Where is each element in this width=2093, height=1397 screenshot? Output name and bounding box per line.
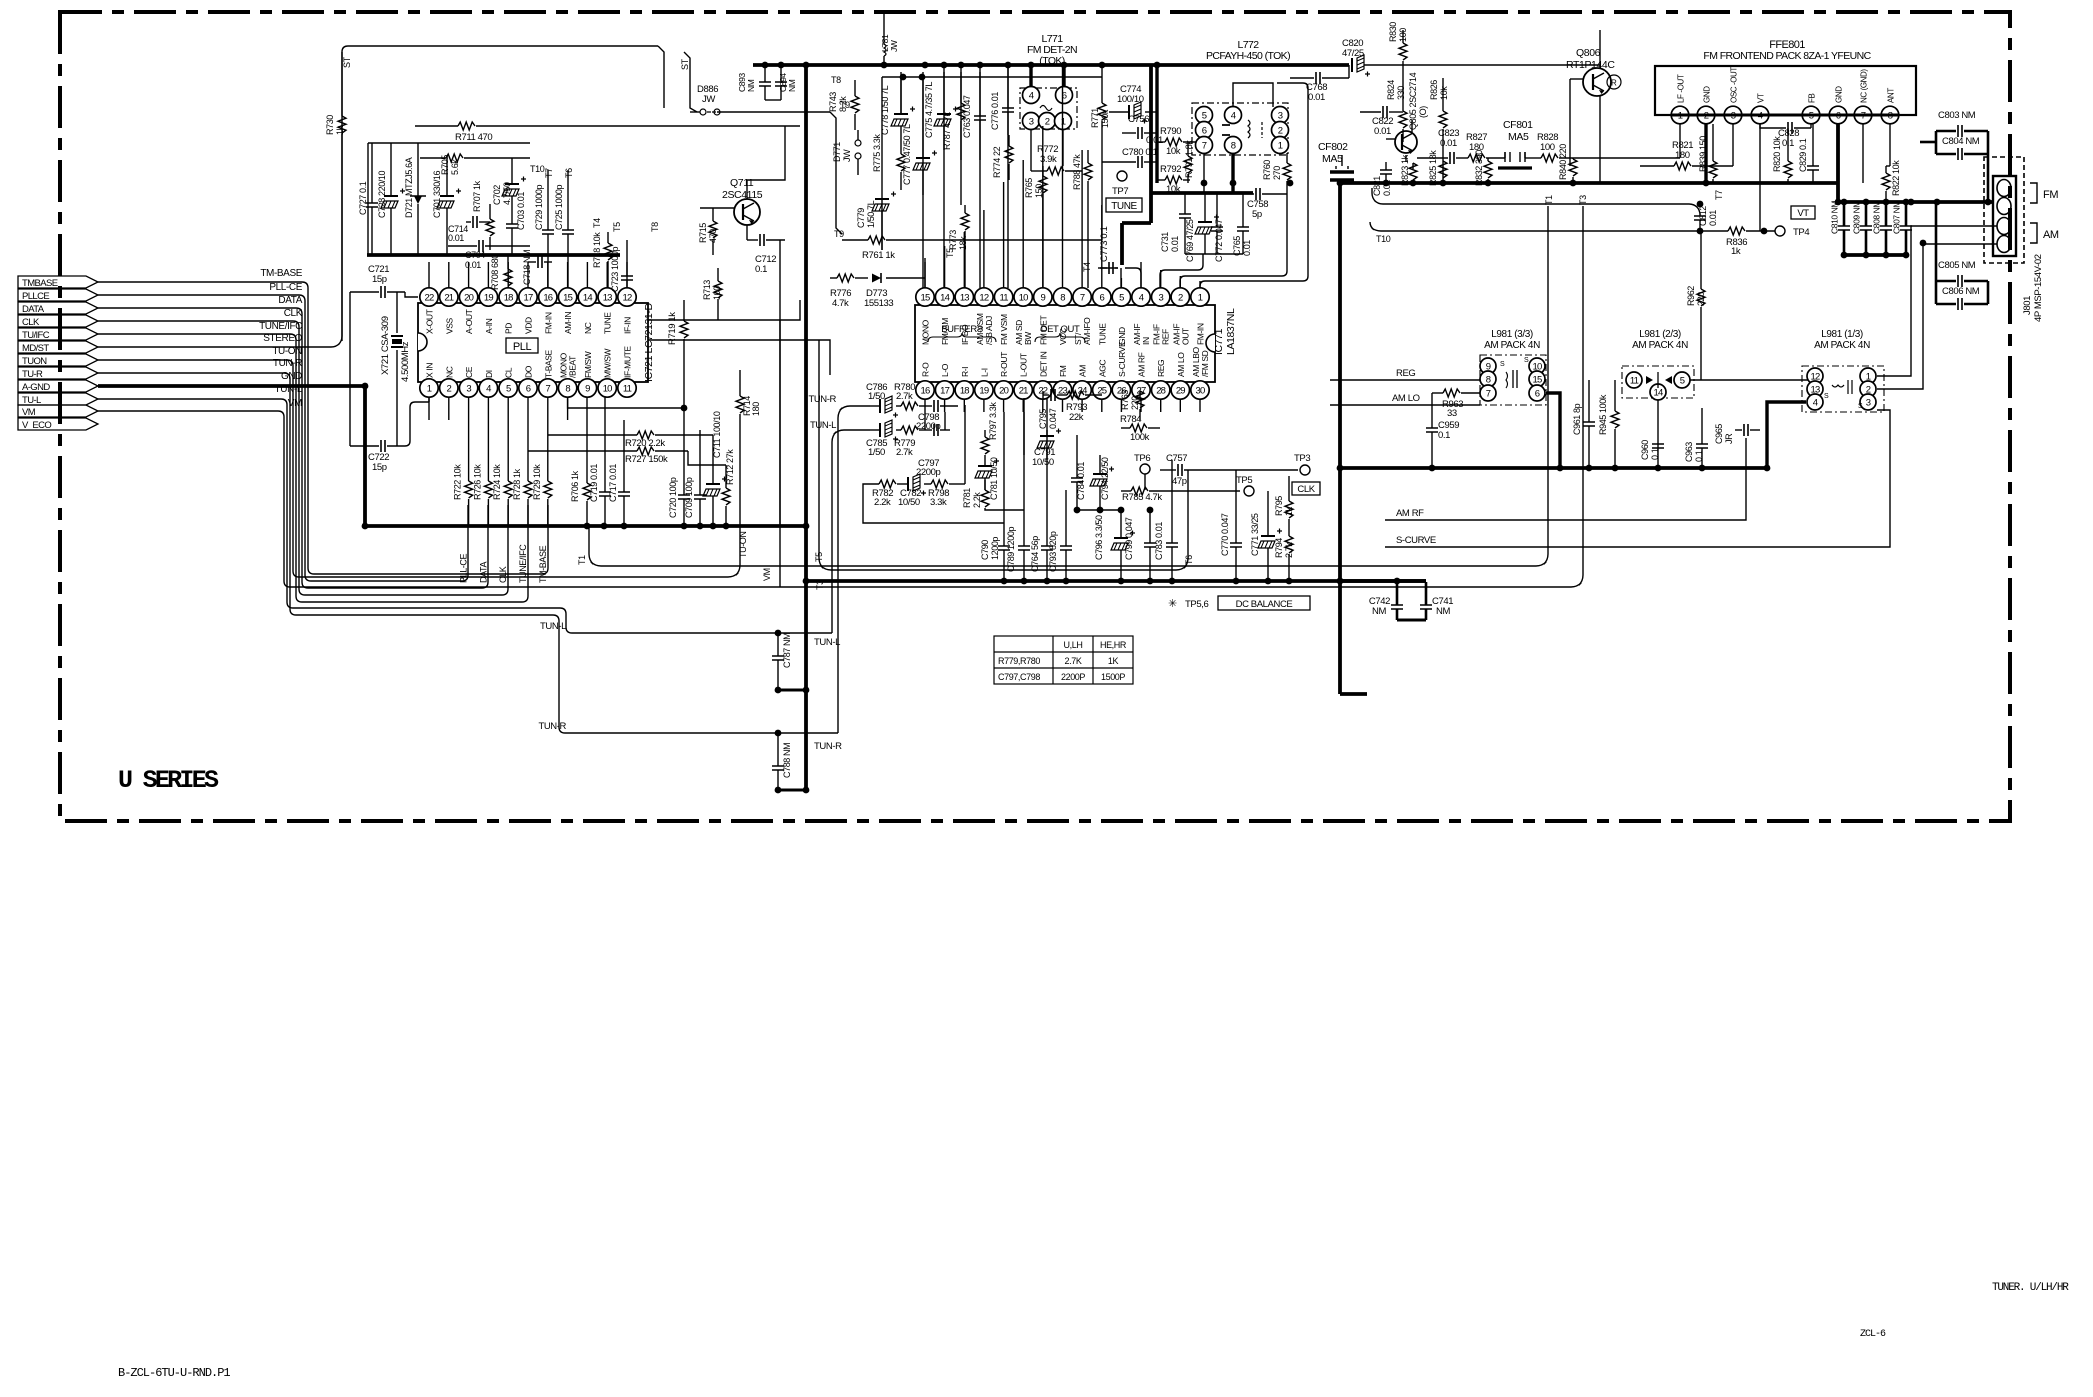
svg-text:C799 0.047: C799 0.047: [1124, 517, 1134, 560]
junction: [958, 62, 965, 69]
wire C805 box: [1935, 202, 1938, 304]
svg-text:GND: GND: [1835, 86, 1844, 103]
pin 18 IC721: [499, 288, 517, 306]
svg-text:C765: C765: [1232, 236, 1242, 256]
svg-text:C772 0.047: C772 0.047: [1214, 219, 1224, 262]
svg-text:C775 4.7/35 7L: C775 4.7/35 7L: [924, 82, 934, 138]
svg-text:MA5: MA5: [1322, 153, 1343, 165]
wire IC771 bot col: [1042, 399, 1044, 412]
svg-text:R822 10k: R822 10k: [1891, 160, 1901, 196]
svg-text:DATA: DATA: [478, 562, 488, 583]
wire IC771 bot col: [1062, 399, 1064, 412]
junction: [1337, 578, 1344, 585]
svg-text:TP5,6: TP5,6: [1185, 599, 1208, 610]
junction: [1201, 180, 1208, 187]
junction: [900, 74, 907, 81]
svg-text:R765: R765: [1024, 178, 1034, 198]
svg-text:C829 0.1: C829 0.1: [1798, 138, 1808, 172]
svg-text:C793 820p: C793 820p: [1048, 531, 1058, 572]
junction: [1570, 180, 1577, 187]
svg-text:PLLCE: PLLCE: [22, 291, 49, 302]
svg-text:R771: R771: [1090, 108, 1100, 128]
junction: [1118, 507, 1125, 514]
svg-text:LA1837NL: LA1837NL: [1225, 308, 1237, 355]
border frame: [60, 12, 2010, 821]
svg-text:10k: 10k: [1439, 86, 1449, 100]
pin 5 IC721: [499, 379, 517, 397]
label PLL box: [506, 338, 538, 353]
junction: [621, 523, 628, 530]
svg-text:X IN: X IN: [425, 363, 435, 378]
svg-text:T9: T9: [834, 229, 844, 239]
svg-text:C776 0.01: C776 0.01: [990, 92, 1000, 130]
svg-text:R760: R760: [1262, 160, 1272, 180]
svg-text:14: 14: [1654, 388, 1663, 399]
svg-text:1K: 1K: [1108, 656, 1119, 666]
svg-text:D721 MTZJ5.6A: D721 MTZJ5.6A: [404, 157, 414, 218]
svg-text:17: 17: [524, 293, 533, 304]
svg-text:11: 11: [1630, 376, 1639, 387]
svg-text:B-ZCL-6TU-U-RND.P1: B-ZCL-6TU-U-RND.P1: [118, 1366, 230, 1380]
svg-text:VT: VT: [1757, 93, 1766, 103]
svg-text:5p: 5p: [1252, 209, 1262, 220]
node CLK connector flag: [18, 315, 98, 327]
wire pin2 down thick: [1704, 124, 1707, 183]
pin 14 IC771: [935, 288, 953, 306]
svg-text:18: 18: [504, 293, 513, 304]
pin 20 IC721: [459, 288, 477, 306]
svg-text:T-BASE: T-BASE: [543, 349, 553, 378]
node TU-L connector flag: [18, 393, 98, 405]
wire R782 loop: [863, 484, 1004, 523]
svg-text:TUN-L: TUN-L: [814, 637, 840, 648]
wire pin8 route: [568, 397, 684, 408]
junction: [1021, 578, 1028, 585]
wire IC721 top pin col: [567, 262, 569, 288]
capacitor C959: [1426, 428, 1438, 432]
pin 3 FFE801: [1724, 106, 1742, 124]
junction: [1903, 199, 1910, 206]
svg-text:AM RF: AM RF: [1137, 352, 1147, 377]
wire T9a: [830, 112, 842, 234]
junction: [803, 578, 810, 585]
svg-text:12: 12: [979, 293, 988, 304]
svg-text:R-O: R-O: [921, 362, 931, 377]
svg-text:R826: R826: [1429, 80, 1439, 100]
svg-text:IC771: IC771: [1213, 328, 1225, 355]
svg-text:U SERIES: U SERIES: [118, 766, 219, 795]
pin 7 IC771: [1073, 288, 1091, 306]
svg-text:C790: C790: [980, 540, 990, 560]
svg-text:AM PACK 4N: AM PACK 4N: [1632, 340, 1688, 351]
svg-text:IF-IN: IF-IN: [623, 317, 633, 334]
svg-text:C960: C960: [1640, 440, 1650, 460]
svg-text:MA5: MA5: [1508, 131, 1529, 143]
svg-text:TUN-R: TUN-R: [808, 394, 836, 405]
svg-text:0.1: 0.1: [1438, 430, 1450, 441]
wire bus y468 thick: [1340, 466, 1767, 470]
junction: [1920, 240, 1927, 247]
svg-text:PCFAYH-450 (TOK): PCFAYH-450 (TOK): [1206, 50, 1290, 62]
svg-text:C702: C702: [492, 185, 502, 205]
svg-text:DI: DI: [484, 370, 494, 378]
junction: [1908, 199, 1915, 206]
wire IC721 top pin col: [626, 262, 628, 288]
wire bus y183 thick: [1340, 181, 1838, 185]
wire vert x806 thick: [804, 65, 808, 790]
wire pin16 col: [924, 412, 926, 430]
svg-text:C787 NM: C787 NM: [782, 633, 792, 668]
svg-text:17: 17: [940, 386, 949, 397]
svg-text:TU-R: TU-R: [22, 369, 43, 380]
wire col 882: [881, 77, 883, 250]
junction: [775, 787, 782, 794]
svg-text:L-O: L-O: [940, 363, 950, 377]
wire IC721-IC771 y320: [648, 300, 800, 320]
svg-text:/BEAT: /BEAT: [568, 356, 578, 378]
svg-text:R823 1k: R823 1k: [1400, 154, 1410, 186]
svg-text:Q806: Q806: [1576, 47, 1601, 59]
wire VM fan: [98, 206, 1583, 587]
svg-text:PLL: PLL: [513, 341, 532, 353]
wire pin1 to xtal: [428, 397, 430, 402]
wire TUN-R fan: [98, 373, 838, 733]
junction: [1903, 252, 1910, 259]
svg-text:R-OUT: R-OUT: [999, 352, 1009, 377]
svg-text:R795: R795: [1274, 496, 1284, 516]
wire IC721 top pin col: [487, 262, 489, 288]
svg-text:T7: T7: [1714, 190, 1724, 200]
pin 11 IC771: [994, 288, 1012, 306]
svg-text:L981 (1/3): L981 (1/3): [1821, 329, 1863, 340]
svg-text:T6: T6: [1184, 555, 1194, 565]
junction: [803, 62, 810, 69]
wire IC771 bot col: [1179, 399, 1181, 412]
svg-text:TUN-R: TUN-R: [814, 741, 842, 752]
svg-text:0.01: 0.01: [1440, 138, 1457, 149]
svg-text:TP7: TP7: [1112, 186, 1128, 197]
pin 6 IC771: [1093, 288, 1111, 306]
svg-text:2SC4115: 2SC4115: [722, 189, 763, 201]
svg-text:C709 100p: C709 100p: [684, 477, 694, 518]
svg-text:C804 NM: C804 NM: [1942, 136, 1980, 147]
svg-text:T5: T5: [612, 222, 622, 232]
wire col 901: [900, 77, 902, 115]
svg-text:1k: 1k: [1731, 246, 1741, 257]
svg-text:3: 3: [1029, 117, 1034, 128]
wire IC771 top col: [1042, 126, 1044, 288]
junction: [775, 630, 782, 637]
svg-text:S: S: [1824, 393, 1829, 400]
pin 13 IC721: [598, 288, 616, 306]
svg-text:28: 28: [1156, 386, 1165, 397]
svg-text:R840 220: R840 220: [1558, 144, 1568, 180]
junction: [1697, 228, 1704, 235]
svg-text:R706 1k: R706 1k: [570, 470, 580, 502]
svg-text:155133: 155133: [864, 298, 893, 309]
wire pin1 riser: [1200, 83, 1308, 288]
pin 5 FFE801: [1802, 106, 1820, 124]
svg-text:C783 0.01: C783 0.01: [1154, 522, 1164, 560]
svg-text:C781 10/50: C781 10/50: [989, 457, 999, 500]
wire L772 top: [1233, 83, 1273, 107]
svg-text:R775 3.3k: R775 3.3k: [872, 134, 882, 172]
svg-text:0.047: 0.047: [1048, 408, 1058, 429]
junction: [1934, 199, 1941, 206]
wire IC771 bot col: [1022, 399, 1024, 412]
wire IC771 top col: [1160, 270, 1162, 288]
svg-text:T1: T1: [577, 555, 587, 565]
junction: [1028, 62, 1035, 69]
svg-text:TUNE: TUNE: [603, 312, 613, 334]
svg-text:C719 0.01: C719 0.01: [589, 464, 599, 502]
svg-text:R830: R830: [1388, 22, 1398, 42]
junction: [881, 62, 888, 69]
wire bus y193 thick: [1151, 191, 1253, 195]
svg-text:19: 19: [484, 293, 493, 304]
svg-text:TU/IFC: TU/IFC: [22, 330, 50, 341]
svg-text:5: 5: [1119, 293, 1124, 304]
svg-text:CL: CL: [504, 367, 514, 378]
jumper D886: [700, 109, 706, 115]
pin 1 IC771: [1191, 288, 1209, 306]
wire bottom stub: [567, 397, 569, 420]
wire STEREO fan: [98, 52, 342, 347]
svg-text:6: 6: [526, 384, 531, 395]
wire L771 p1: [1062, 130, 1064, 166]
wire GND fan thick: [98, 384, 365, 388]
svg-text:22k: 22k: [1069, 412, 1084, 423]
svg-text:Q805 2SC2714: Q805 2SC2714: [1408, 72, 1418, 130]
wire bottom stub: [448, 397, 450, 420]
pin 10 IC721: [598, 379, 616, 397]
pin 25 IC771: [1093, 381, 1111, 399]
pin 18 IC771: [955, 381, 973, 399]
svg-text:5: 5: [506, 384, 511, 395]
wire col pins20-21: [1003, 412, 1005, 490]
svg-text:2.7k: 2.7k: [896, 447, 913, 458]
wire IC771 bot col: [963, 399, 965, 412]
test point TP5: [1244, 486, 1254, 496]
svg-text:R724 10k: R724 10k: [492, 464, 502, 500]
wire Q711 collector: [747, 126, 785, 199]
junction: [1485, 180, 1492, 187]
svg-text:ZCL-6: ZCL-6: [1860, 1329, 1886, 1340]
junction: [1044, 578, 1051, 585]
test point TP6: [1140, 464, 1150, 474]
junction: [1154, 62, 1161, 69]
wire x785 col: [779, 240, 781, 587]
svg-text:1/50: 1/50: [868, 391, 885, 402]
pin 8 FFE801: [1881, 106, 1899, 124]
svg-text:A-IN: A-IN: [484, 318, 494, 334]
junction: [1883, 252, 1890, 259]
block FFE801 body: [1655, 66, 1916, 115]
capacitor C963: [1696, 444, 1708, 448]
svg-text:4: 4: [1029, 91, 1034, 102]
svg-text:R792: R792: [1160, 164, 1181, 175]
wire Q806 base: [1570, 78, 1583, 80]
pin 12 IC721: [618, 288, 636, 306]
pin 16 IC721: [539, 288, 557, 306]
svg-text:4: 4: [1139, 293, 1144, 304]
junction: [681, 523, 688, 530]
svg-text:C725 1000p: C725 1000p: [554, 185, 564, 230]
junction: [1764, 465, 1771, 472]
svg-text:33: 33: [1447, 408, 1457, 419]
svg-text:C777 0.47/50 7L: C777 0.47/50 7L: [902, 124, 912, 185]
svg-text:13: 13: [603, 293, 612, 304]
junction: [601, 523, 608, 530]
svg-text:L981 (2/3): L981 (2/3): [1639, 329, 1681, 340]
wire x780 col: [779, 320, 781, 526]
svg-text:C728 220/10: C728 220/10: [377, 170, 387, 218]
pin 4 IC721: [479, 379, 497, 397]
wire top bus thick: [753, 63, 1349, 67]
pin 9 IC771: [1034, 288, 1052, 306]
svg-text:TP3: TP3: [1294, 453, 1310, 464]
junction: [1985, 199, 1992, 206]
svg-text:C718 NM: C718 NM: [522, 250, 532, 285]
svg-text:OUT: OUT: [1180, 328, 1190, 345]
inductor L771 pack: [1020, 88, 1077, 129]
junction: [1063, 578, 1070, 585]
svg-text:C757: C757: [1166, 453, 1187, 464]
svg-text:DET IN: DET IN: [1038, 351, 1048, 377]
wire Q806 collector: [1599, 30, 1601, 68]
svg-text:AGC: AGC: [1097, 360, 1107, 377]
svg-text:R761 1k: R761 1k: [862, 250, 895, 261]
wire IC771 bot col: [1101, 399, 1103, 412]
svg-text:2: 2: [1278, 126, 1283, 137]
svg-text:TP5: TP5: [1236, 475, 1252, 486]
svg-text:C821: C821: [1372, 176, 1382, 196]
svg-text:TU-L: TU-L: [22, 395, 41, 406]
svg-text:R824: R824: [1386, 80, 1396, 100]
svg-text:TUNE/IFC: TUNE/IFC: [518, 544, 528, 583]
pin 8 IC721: [558, 379, 576, 397]
svg-text:JW: JW: [702, 94, 715, 105]
wire pin4 riser: [1125, 268, 1141, 288]
svg-text:C720 100p: C720 100p: [668, 477, 678, 518]
svg-text:T10: T10: [530, 164, 545, 174]
wire cluster bus: [1185, 253, 1243, 255]
junction: [362, 383, 369, 390]
wire corner x663: [658, 46, 664, 108]
svg-text:1200p: 1200p: [990, 537, 1000, 560]
wire TM-BASE fan: [98, 282, 548, 574]
svg-text:VDD: VDD: [524, 317, 534, 334]
pin 9 IC721: [578, 379, 596, 397]
wire bus y255 thick: [367, 253, 620, 257]
svg-text:C770 0.047: C770 0.047: [1220, 513, 1230, 556]
svg-text:Q711: Q711: [730, 177, 754, 189]
svg-text:2200P: 2200P: [1061, 672, 1085, 682]
wire IC771 top col: [1003, 182, 1005, 288]
svg-text:(O): (O): [1418, 106, 1428, 118]
wire IC771 top col: [944, 246, 946, 288]
node V_ECO connector flag: [18, 418, 98, 430]
junction: [1147, 507, 1154, 514]
svg-text:2.2k: 2.2k: [874, 497, 891, 508]
svg-text:VM: VM: [22, 407, 36, 418]
pin 11 IC721: [618, 379, 636, 397]
wire REG: [1330, 379, 1488, 381]
wire L771 p6 thick: [1062, 65, 1065, 87]
pin 16 IC771: [916, 381, 934, 399]
svg-text:A-OUT: A-OUT: [464, 309, 474, 334]
wire C803 box: [1935, 131, 1938, 154]
svg-text:9: 9: [1041, 293, 1046, 304]
pin 12 IC771: [975, 288, 993, 306]
wire L981-23 p14: [1657, 400, 1659, 468]
wire AM conn risers: [1877, 226, 1997, 376]
svg-text:7: 7: [1486, 389, 1491, 400]
pin 14 IC721: [578, 288, 596, 306]
wire L981-13 link: [1690, 379, 1808, 381]
svg-text:FM/SW: FM/SW: [583, 351, 593, 378]
svg-text:14: 14: [583, 293, 592, 304]
resistor R836: [1728, 227, 1745, 235]
junction: [1841, 199, 1848, 206]
junction: [1337, 465, 1344, 472]
junction: [1001, 578, 1008, 585]
pin 6 IC721: [519, 379, 537, 397]
svg-text:T7: T7: [544, 168, 554, 178]
pin 22 IC721: [420, 288, 438, 306]
junction: [1097, 507, 1104, 514]
wire DATA fan: [98, 308, 488, 588]
svg-text:R713: R713: [702, 280, 712, 300]
svg-text:ST: ST: [680, 58, 690, 70]
svg-text:DATA: DATA: [278, 295, 302, 306]
svg-text:1500P: 1500P: [1101, 672, 1125, 682]
wire IC721 top pin col: [448, 262, 450, 288]
test point TP4: [1775, 226, 1785, 236]
svg-text:MONO: MONO: [921, 319, 931, 345]
junction: [1612, 465, 1619, 472]
pin 17 IC771: [935, 381, 953, 399]
svg-text:15: 15: [563, 293, 572, 304]
svg-text:J801: J801: [2022, 296, 2033, 315]
label AM: [2030, 223, 2037, 243]
svg-text:FB: FB: [1808, 94, 1817, 103]
label TUNE box: [1106, 198, 1142, 212]
wire AM RF: [1385, 438, 1746, 520]
junction: [1863, 199, 1870, 206]
svg-text:C808 NM: C808 NM: [1872, 201, 1882, 234]
svg-text:A-GND: A-GND: [22, 382, 50, 393]
wire IC771 top col: [1120, 278, 1122, 288]
capacitor C960: [1652, 444, 1664, 448]
svg-text:NM: NM: [746, 79, 756, 92]
svg-text:TUNE: TUNE: [1097, 323, 1107, 345]
wire IC771 top col: [1081, 150, 1083, 288]
wire L771 p4 thick: [1029, 65, 1032, 87]
svg-text:47/25: 47/25: [1342, 48, 1364, 59]
svg-text:FM-IN: FM-IN: [1196, 323, 1206, 345]
junction: [1655, 465, 1662, 472]
svg-text:180: 180: [1675, 150, 1690, 161]
svg-text:C810 NM: C810 NM: [1830, 201, 1840, 234]
junction: [1440, 180, 1447, 187]
svg-text:C961 8p: C961 8p: [1572, 403, 1582, 435]
svg-text:2: 2: [447, 384, 452, 395]
svg-text:REF: REF: [1161, 329, 1171, 345]
wire IC771 bot col: [924, 399, 926, 412]
pin 5 IC771: [1112, 288, 1130, 306]
svg-text:C717 0.01: C717 0.01: [608, 464, 618, 502]
